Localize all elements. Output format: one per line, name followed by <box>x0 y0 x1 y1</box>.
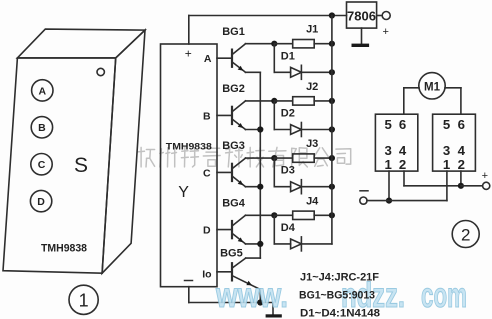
junction XS2 pin2 plus rail <box>458 183 464 189</box>
svg-text:A: A <box>204 53 212 65</box>
label parts J1-J4 type <box>300 272 379 284</box>
svg-text:J4: J4 <box>306 195 319 207</box>
IC U1 TMH9838 decoder <box>161 44 218 287</box>
IC pin A <box>204 53 212 65</box>
svg-text:2: 2 <box>399 157 406 172</box>
ground symbol <box>266 314 282 317</box>
wire plus rail to terminal <box>461 185 483 187</box>
label parts BG1-BG5 type <box>299 290 375 302</box>
wire BG1 collector to node <box>246 43 275 45</box>
wire relay supply rail (right vertical) <box>331 16 333 244</box>
svg-text:7806: 7806 <box>347 9 376 24</box>
relay coil J3 JRC-21F <box>274 138 332 162</box>
svg-text:J3: J3 <box>306 138 318 150</box>
svg-text:6: 6 <box>458 117 465 132</box>
remote control unit box (3D) front face <box>3 58 116 273</box>
IC pin C <box>203 167 211 179</box>
junction XS1 pin1 minus rail <box>386 198 392 204</box>
svg-text:1: 1 <box>385 157 392 172</box>
svg-text:BG1: BG1 <box>222 26 245 38</box>
svg-text:BG5: BG5 <box>220 247 243 259</box>
wire XS1 pin1 down to minus rail <box>388 171 390 201</box>
svg-text:1: 1 <box>79 291 89 311</box>
indicator LED <box>97 68 104 75</box>
svg-text:B: B <box>38 122 46 134</box>
svg-text:C: C <box>38 159 46 171</box>
wire BG5 collector to emitter rail <box>246 257 261 259</box>
svg-text:A: A <box>39 85 47 97</box>
svg-text:www.: www. <box>215 276 288 315</box>
svg-text:D: D <box>203 225 211 237</box>
svg-text:S: S <box>74 154 88 177</box>
diode D3 1N4148 <box>274 158 332 194</box>
diode D4 1N4148 <box>274 215 332 251</box>
junction emitter BG3 <box>257 184 263 190</box>
transistor BG1 9013 <box>217 26 246 72</box>
relay coil J4 JRC-21F <box>274 195 332 219</box>
svg-text:BG1~BG5:9013: BG1~BG5:9013 <box>299 290 375 302</box>
svg-text:J1: J1 <box>306 24 318 36</box>
wire XS2 pin2 down <box>460 171 462 186</box>
junction J4 right rail <box>329 212 335 218</box>
svg-text:B: B <box>203 110 211 122</box>
label parts D1-D4 type <box>300 308 380 319</box>
svg-text:D1~D4:1N4148: D1~D4:1N4148 <box>300 308 380 319</box>
label TMH9838 on box <box>41 243 87 255</box>
svg-text:com: com <box>421 276 467 315</box>
relay coil J2 JRC-21F <box>274 81 332 105</box>
svg-text:D2: D2 <box>281 108 295 120</box>
watermark www blue text (decorative) <box>215 276 467 315</box>
wire XS2 pin1 down to minus rail <box>446 171 448 201</box>
transistor BG5 9013 <box>217 247 260 289</box>
wire 7806 output <box>377 15 383 17</box>
svg-text:M1: M1 <box>424 81 441 93</box>
button D <box>30 190 51 211</box>
wire minus rail <box>367 200 447 202</box>
transistor BG4 9013 <box>217 197 246 244</box>
wire IC minus to ground <box>189 287 273 315</box>
transistor BG2 9013 <box>217 83 246 129</box>
wire M1 right lead to socket pin 6 <box>445 88 461 114</box>
svg-text:2: 2 <box>461 225 470 244</box>
transistor BG3 9013 <box>217 140 246 187</box>
svg-text:D: D <box>37 196 45 208</box>
svg-text:J2: J2 <box>306 81 318 93</box>
junction top rail to relay rail <box>329 12 335 18</box>
junction emitter BG2 <box>257 126 263 132</box>
svg-text:C: C <box>203 167 211 179</box>
svg-text:5: 5 <box>443 117 450 132</box>
IC pin D <box>203 225 211 237</box>
wire BG2 emitter to emitter rail <box>246 129 261 131</box>
diode D1 1N4148 <box>274 44 332 80</box>
svg-text:+: + <box>482 170 488 182</box>
svg-text:+: + <box>382 26 388 38</box>
svg-text:TMH9838: TMH9838 <box>166 141 212 152</box>
wire M1 left lead to socket pin 6 <box>404 88 419 114</box>
junction D2 right rail <box>329 126 335 132</box>
diode D2 1N4148 <box>274 101 332 137</box>
node collector BG3 / J3 / D3 <box>271 155 277 161</box>
wire V+ from IC top to regulator input <box>189 16 347 45</box>
relay contact block XS1 <box>375 114 417 172</box>
junction emitter BG4 <box>257 241 263 247</box>
button C <box>31 154 52 175</box>
svg-text:2: 2 <box>458 157 465 172</box>
svg-text:D4: D4 <box>281 222 296 234</box>
svg-text:D1: D1 <box>281 50 295 62</box>
remote control unit box top face <box>17 29 145 58</box>
remote control unit box right face <box>102 30 145 273</box>
junction J1 right rail <box>329 41 335 47</box>
node collector BG1 / J1 / D1 <box>271 41 277 47</box>
node collector BG4 / J4 / D4 <box>271 212 277 218</box>
svg-text:1: 1 <box>443 157 450 172</box>
junction D3 right rail <box>329 184 335 190</box>
junction emitter rail to ground line <box>257 299 263 305</box>
wire BG4 collector to node <box>246 214 275 216</box>
ground of 7806 <box>352 28 370 47</box>
regulator U2 7806 <box>347 2 377 28</box>
relay contact block XS2 <box>433 114 476 172</box>
button A <box>32 80 53 101</box>
svg-text:J1~J4:JRC-21F: J1~J4:JRC-21F <box>300 272 379 284</box>
svg-text:Y: Y <box>178 184 189 201</box>
wire XS1 pin2 to plus rail <box>404 171 461 186</box>
svg-text:BG2: BG2 <box>222 83 245 95</box>
terminal minus <box>360 191 368 204</box>
node collector BG2 / J2 / D2 <box>271 98 277 104</box>
wire BG5 emitter down <box>259 290 261 303</box>
terminal plus <box>482 170 490 189</box>
junction J2 right rail <box>329 98 335 104</box>
wire BG3 collector to node <box>246 157 275 159</box>
svg-text:BG3: BG3 <box>222 140 245 152</box>
wire BG2 collector to node <box>246 100 275 102</box>
svg-text:BG4: BG4 <box>222 197 246 209</box>
wire BG3 emitter to emitter rail <box>246 186 261 188</box>
svg-text:6: 6 <box>399 117 406 132</box>
svg-text:D3: D3 <box>281 165 295 177</box>
svg-text:Io: Io <box>202 268 211 280</box>
motor M1 <box>419 73 445 99</box>
junction J3 right rail <box>329 155 335 161</box>
svg-text:+: + <box>185 47 192 61</box>
wire common emitter rail <box>259 72 261 258</box>
button B <box>31 117 52 138</box>
svg-text:TMH9838: TMH9838 <box>41 243 87 255</box>
callout 2 <box>452 221 479 248</box>
relay coil J1 JRC-21F <box>274 24 332 48</box>
wire BG1 emitter to emitter rail <box>246 71 261 73</box>
IC pin Io <box>202 268 211 280</box>
svg-text:5: 5 <box>385 117 392 132</box>
callout 1 <box>69 285 98 314</box>
label S switch <box>74 154 88 177</box>
terminal 7806 +6V output <box>382 12 390 39</box>
IC pin B <box>203 110 211 122</box>
wire BG4 emitter to emitter rail <box>246 243 261 245</box>
junction D1 right rail <box>329 69 335 75</box>
